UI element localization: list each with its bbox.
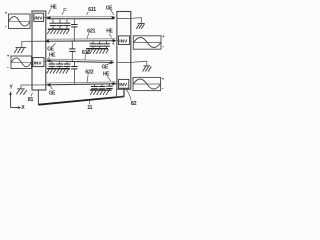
heating element 612 (row 3, line) xyxy=(44,59,114,64)
svg-text:Y: Y xyxy=(9,85,13,91)
svg-text:GE: GE xyxy=(106,5,113,11)
svg-text:GE: GE xyxy=(47,46,54,52)
svg-text:-: - xyxy=(5,24,7,30)
svg-text:82: 82 xyxy=(131,101,137,107)
label 621 with leader xyxy=(87,29,95,39)
AC source V4 (right, row 4) xyxy=(133,77,165,92)
chamber bottom wall 11 xyxy=(38,89,124,105)
ground electrode bar row 1 (hatched) xyxy=(47,29,69,34)
capacitor group row 2 xyxy=(90,41,110,48)
svg-text:81: 81 xyxy=(28,97,34,103)
AC source V1 (top-left) xyxy=(5,11,30,30)
ground G3 (mid right) xyxy=(143,66,152,72)
svg-text:-: - xyxy=(7,65,9,71)
ground G1 (top right) xyxy=(136,23,144,28)
wire row3 through plate 82 to ground xyxy=(117,61,147,66)
coordinate axes X/Y xyxy=(9,85,25,111)
capacitor group row 1 (C) xyxy=(50,19,71,29)
svg-text:612: 612 xyxy=(82,50,90,56)
wire row4 through plate 81 to ground xyxy=(21,85,47,89)
svg-text:+: + xyxy=(162,34,165,39)
inverter INV1 (top-left) xyxy=(34,13,44,21)
capacitor group row 4 xyxy=(91,84,113,90)
ground electrode bar row 2 (hatched) xyxy=(86,49,108,54)
label HE row 4 right with leader xyxy=(103,72,111,81)
label HE row 3 left with leader xyxy=(47,52,56,59)
AC source V3 (right, row 2) xyxy=(133,34,165,50)
svg-text:INV: INV xyxy=(119,82,128,88)
AC source V2 (mid-left) xyxy=(7,54,32,71)
label 611 with leader xyxy=(87,7,96,15)
ground electrode bar row 4 (hatched) xyxy=(90,90,112,95)
label HE row 1 left with leader xyxy=(48,5,57,14)
heating element 611 (row 1, line) xyxy=(44,16,116,19)
ground G2 (mid left) xyxy=(14,48,26,54)
label C with leader xyxy=(62,7,67,15)
label 612 with leader xyxy=(82,50,90,60)
inverter INV2 (mid-left) xyxy=(33,58,44,67)
label GE row 2 left with leader xyxy=(47,43,55,52)
svg-text:X: X xyxy=(21,105,25,111)
label GE row 3 right with leader xyxy=(102,63,112,71)
capacitor group row 3 xyxy=(49,61,71,68)
right support plate 82 (tall box) xyxy=(117,12,131,90)
svg-text:INV: INV xyxy=(119,39,128,45)
wire row2 through plate 81 to ground xyxy=(22,41,45,47)
svg-text:+: + xyxy=(7,54,10,59)
svg-text:GE: GE xyxy=(49,91,56,97)
svg-text:11: 11 xyxy=(87,105,92,111)
coupling capacitor row3-row4 xyxy=(71,62,77,85)
label 82 with leader xyxy=(126,90,136,107)
label GE row 4 left with leader xyxy=(49,86,56,96)
inverter INV4 (right, row 4) xyxy=(119,79,129,88)
svg-text:+: + xyxy=(162,77,165,82)
ground electrode bar row 3 (hatched) xyxy=(47,69,70,74)
svg-text:-: - xyxy=(162,85,164,91)
svg-text:611: 611 xyxy=(88,7,96,13)
node dot row 2 right xyxy=(113,43,115,45)
heating element 621 (row 2, line) xyxy=(45,39,119,43)
svg-text:INV: INV xyxy=(34,16,43,22)
svg-text:+: + xyxy=(5,11,8,16)
coupling capacitor row2-row3 xyxy=(69,41,75,62)
svg-text:-: - xyxy=(162,44,164,50)
label 622 with leader xyxy=(85,70,93,83)
inverter INV3 (right, row 2) xyxy=(119,36,130,45)
svg-text:C: C xyxy=(63,7,67,13)
wire row1 through plate 82 to ground xyxy=(117,18,141,24)
coupling capacitor row1-row2 xyxy=(71,19,77,41)
ground G4 (bottom left) xyxy=(16,89,26,95)
label 81 with leader xyxy=(28,93,34,103)
svg-text:INV: INV xyxy=(34,60,43,66)
label GE row 1 right with leader xyxy=(106,5,114,14)
heating element 622 (row 4, line) xyxy=(47,82,119,87)
label HE row 2 right with leader xyxy=(106,28,113,37)
label 11 with leader xyxy=(87,100,92,111)
svg-text:622: 622 xyxy=(85,70,93,76)
svg-text:GE: GE xyxy=(102,64,109,70)
left support plate 81 (tall box) xyxy=(32,11,46,90)
